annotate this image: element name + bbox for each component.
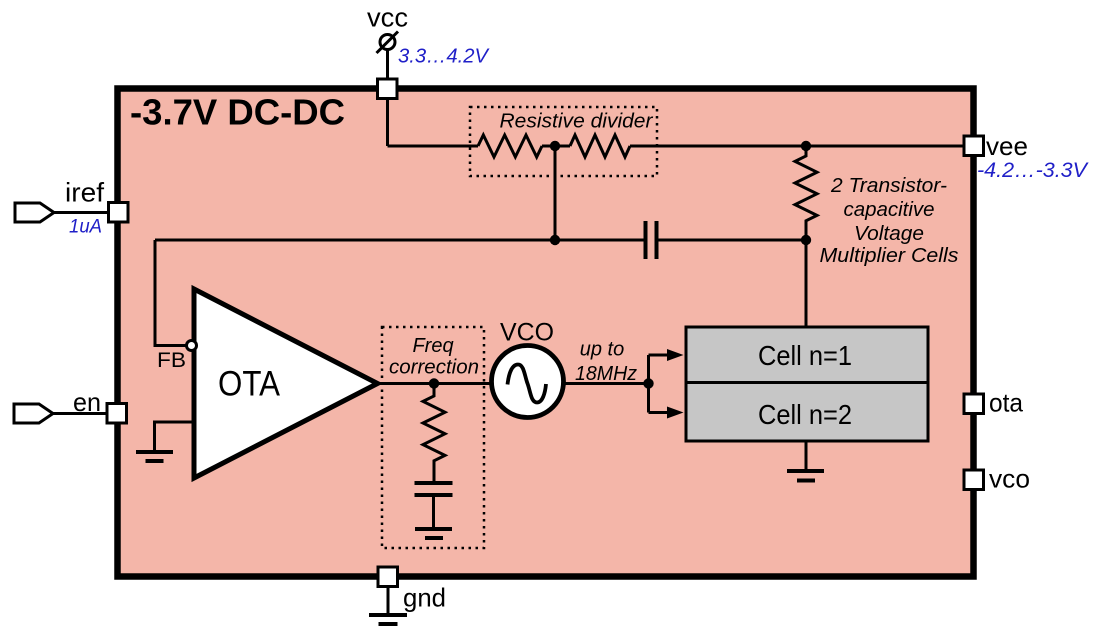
pin vee square bbox=[964, 136, 984, 156]
wire vcc net bbox=[386, 49, 389, 146]
capacitor C1 bbox=[646, 221, 657, 259]
cell divider line bbox=[686, 381, 928, 384]
ground gnd pin bbox=[369, 615, 407, 624]
pin vco square bbox=[964, 470, 984, 490]
wire top net y=146 bbox=[388, 145, 965, 148]
pin en tag bbox=[14, 404, 53, 423]
svg-text:Resistive divider: Resistive divider bbox=[500, 110, 654, 133]
svg-text:3.3…4.2V: 3.3…4.2V bbox=[398, 46, 490, 68]
wire OTA out to VCO bbox=[378, 382, 493, 385]
node vee-resistor top bbox=[801, 141, 811, 151]
svg-text:Cell n=1: Cell n=1 bbox=[758, 340, 852, 371]
resistor R2 (divider right) bbox=[570, 135, 630, 157]
ground cells bbox=[805, 441, 808, 471]
svg-text:Cell n=2: Cell n=2 bbox=[758, 399, 852, 430]
svg-text:-3.7V DC-DC: -3.7V DC-DC bbox=[130, 92, 345, 133]
wire VCO to cells node bbox=[564, 382, 649, 385]
wire arrow branch vertical bbox=[647, 355, 650, 413]
svg-text:gnd: gnd bbox=[403, 583, 446, 613]
wire feedback left branch to FB bbox=[155, 240, 188, 346]
Freq correction dotted box bbox=[382, 327, 484, 548]
pin vcc square bbox=[378, 79, 398, 99]
node freq correction tap bbox=[429, 378, 439, 388]
svg-text:capacitive: capacitive bbox=[844, 198, 935, 221]
node tap-cap bbox=[550, 235, 560, 245]
arrowhead bottom bbox=[667, 407, 684, 419]
Resistive divider dotted box bbox=[470, 107, 657, 176]
node VCO out bbox=[643, 378, 653, 388]
svg-text:up to: up to bbox=[580, 339, 624, 361]
svg-text:ota: ota bbox=[989, 388, 1023, 418]
wire to cells bbox=[805, 240, 808, 327]
wire en bbox=[53, 412, 107, 415]
node FB open circle bbox=[187, 341, 197, 351]
arrowhead top bbox=[667, 349, 684, 361]
svg-text:vee: vee bbox=[986, 131, 1028, 161]
svg-text:2 Transistor-: 2 Transistor- bbox=[830, 174, 947, 197]
wire tap vertical bbox=[554, 146, 557, 240]
svg-text:VCO: VCO bbox=[500, 319, 554, 347]
VCO oscillator circle U2 bbox=[492, 346, 564, 418]
svg-text:Voltage: Voltage bbox=[854, 222, 924, 245]
resistor R1 (divider left) bbox=[478, 135, 542, 157]
resistor R3 (multiplier feedback) bbox=[795, 146, 817, 240]
cells box bbox=[686, 327, 928, 441]
wire arrow top bbox=[649, 354, 670, 357]
node divider tap bbox=[550, 141, 560, 151]
pin ota square bbox=[964, 394, 984, 414]
svg-text:FB: FB bbox=[157, 348, 186, 372]
wire arrow bottom bbox=[649, 411, 670, 414]
svg-text:1uA: 1uA bbox=[69, 217, 102, 238]
capacitor C2 (freq correction) bbox=[415, 483, 453, 495]
pin en square bbox=[107, 404, 127, 424]
svg-text:vcc: vcc bbox=[367, 3, 408, 33]
svg-text:correction: correction bbox=[389, 357, 479, 379]
wire gnd stub bbox=[387, 587, 390, 616]
wire OTA minus input bbox=[155, 422, 195, 452]
ground freq correction bbox=[415, 529, 452, 538]
svg-text:vco: vco bbox=[989, 464, 1030, 494]
svg-text:Multiplier Cells: Multiplier Cells bbox=[820, 244, 959, 267]
svg-text:Freq: Freq bbox=[412, 335, 453, 357]
svg-text:iref: iref bbox=[65, 178, 105, 208]
svg-text:OTA: OTA bbox=[218, 365, 281, 404]
pin iref tag bbox=[15, 203, 54, 222]
resistor R4 (freq correction) bbox=[423, 384, 445, 484]
node R3 bottom bbox=[801, 235, 811, 245]
vcc supply symbol bbox=[380, 35, 395, 50]
svg-text:-4.2…-3.3V: -4.2…-3.3V bbox=[977, 159, 1089, 182]
svg-text:18MHz: 18MHz bbox=[575, 363, 637, 385]
VCO sine wave bbox=[508, 365, 547, 403]
pin gnd square bbox=[378, 567, 398, 587]
wire feedback net y=240 bbox=[155, 239, 806, 242]
ground OTA minus bbox=[136, 452, 173, 461]
IC body box bbox=[118, 89, 974, 577]
svg-text:en: en bbox=[73, 387, 101, 417]
wire C2 to ground bbox=[432, 495, 435, 529]
op-amp OTA triangle bbox=[194, 289, 378, 478]
pin iref square bbox=[109, 203, 129, 223]
wire iref bbox=[54, 211, 108, 214]
